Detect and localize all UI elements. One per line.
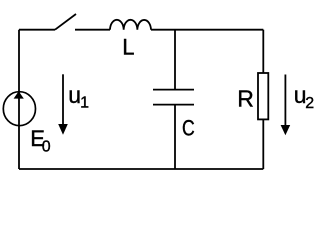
svg-text:L: L	[122, 35, 134, 60]
svg-text:C: C	[182, 117, 195, 141]
svg-text:R: R	[237, 86, 254, 112]
svg-text:1: 1	[80, 95, 89, 112]
svg-text:u: u	[68, 82, 81, 108]
svg-text:0: 0	[42, 138, 51, 155]
svg-text:2: 2	[305, 95, 314, 112]
